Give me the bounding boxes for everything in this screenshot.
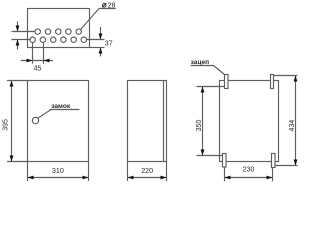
rear view panel: [220, 81, 279, 162]
holes bottom row: [30, 37, 87, 42]
svg-text:395: 395: [2, 119, 9, 131]
svg-text:230: 230: [243, 166, 255, 173]
dimension 37: [87, 27, 105, 57]
dimension 350: [197, 87, 225, 156]
dimension 395: [7, 81, 28, 162]
holes top row: [35, 29, 81, 34]
bracket bottom-left: [223, 154, 227, 168]
dimension 434: [274, 76, 298, 166]
svg-text:310: 310: [52, 166, 64, 175]
bracket top-right: [271, 75, 274, 89]
lock circle: [32, 117, 38, 123]
label ø28: [102, 3, 106, 7]
top view plate: [28, 9, 90, 48]
side view panel: [128, 81, 167, 162]
leader ø28: [80, 9, 115, 30]
leader замок: [38, 110, 80, 119]
svg-text:434: 434: [289, 120, 296, 132]
svg-text:28: 28: [108, 2, 116, 9]
front view panel: [28, 81, 89, 162]
svg-text:замок: замок: [51, 103, 71, 110]
leader зацеп: [191, 66, 225, 75]
svg-text:37: 37: [105, 40, 113, 47]
dimension 220: [128, 162, 167, 182]
svg-text:220: 220: [141, 166, 153, 175]
bracket top-left: [225, 75, 229, 89]
side view door line: [163, 81, 165, 162]
row spacing dimension (left of top view): [12, 22, 36, 50]
dimension 45: [21, 42, 53, 64]
svg-text:45: 45: [34, 66, 42, 73]
svg-text:зацеп: зацеп: [191, 59, 210, 66]
dimension 230: [225, 167, 273, 181]
dimension 310: [28, 162, 89, 182]
svg-text:350: 350: [196, 120, 203, 132]
bracket bottom-right: [272, 154, 276, 168]
